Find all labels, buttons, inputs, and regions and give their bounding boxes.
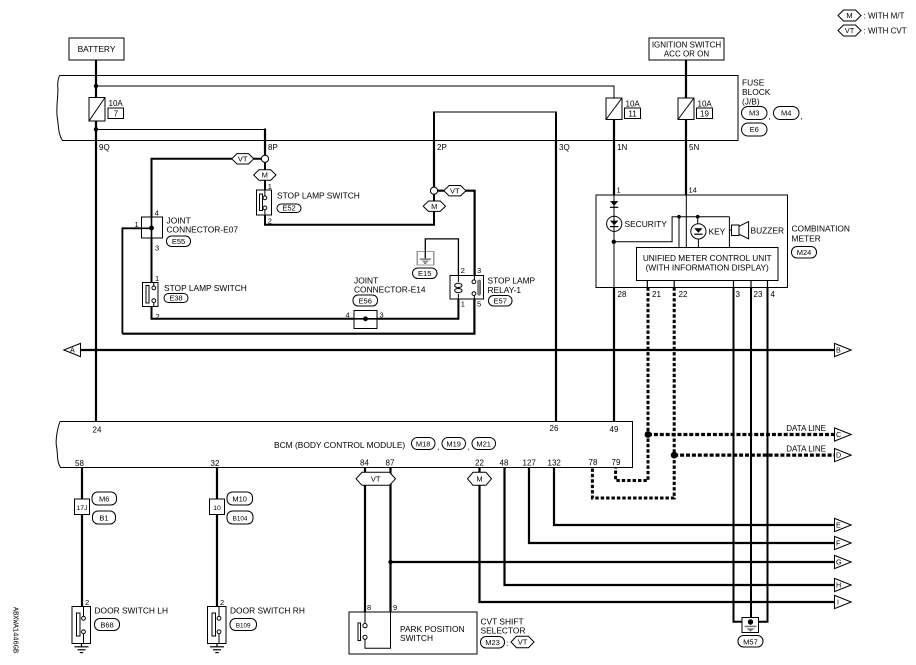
svg-text:B: B xyxy=(836,346,841,355)
svg-text:28: 28 xyxy=(618,290,627,299)
svg-text:87: 87 xyxy=(386,459,395,468)
svg-text:VT: VT xyxy=(238,154,248,163)
wire 2P branch right to relay pin 3 xyxy=(438,191,475,276)
wire meter pin 28 to BCM pin 49 xyxy=(613,287,615,421)
svg-text:84: 84 xyxy=(360,459,369,468)
svg-text:VT: VT xyxy=(371,475,381,484)
wire JC E14 pin 3 to relay pin 1 xyxy=(377,299,458,319)
svg-text:M: M xyxy=(431,202,437,211)
svg-text:DOOR SWITCH LH: DOOR SWITCH LH xyxy=(95,606,169,616)
svg-text:21: 21 xyxy=(652,290,661,299)
wire BCM 22 to line I xyxy=(480,467,835,602)
svg-text:DATA LINE: DATA LINE xyxy=(786,424,826,433)
wire BCM 48 to line H xyxy=(505,467,835,585)
svg-text:IGNITION SWITCH: IGNITION SWITCH xyxy=(652,41,722,50)
combination meter label M24 xyxy=(792,224,850,259)
wire BCM 132 to line E xyxy=(554,467,835,525)
bus from battery junction to fuse 11 xyxy=(96,86,614,98)
joint connector E07 xyxy=(135,209,239,253)
svg-text:BATTERY: BATTERY xyxy=(78,44,116,54)
wire 8P branch left to JC E07 pin 4 xyxy=(152,159,262,217)
svg-text:,: , xyxy=(437,442,439,452)
svg-text:E56: E56 xyxy=(359,297,372,306)
BCM label xyxy=(274,438,496,452)
ground M57 xyxy=(738,618,763,648)
wire 8P drop to branch circle xyxy=(264,141,266,156)
stop lamp switch E52 xyxy=(257,190,360,215)
connector 10 xyxy=(210,492,254,524)
svg-text:SWITCH: SWITCH xyxy=(400,633,433,643)
svg-text:10A: 10A xyxy=(698,100,713,109)
svg-text:2: 2 xyxy=(85,598,89,607)
junction dot below security xyxy=(612,240,616,244)
svg-text:SECURITY: SECURITY xyxy=(625,219,668,229)
wire E52 pin 2 to 2P branch xyxy=(265,194,434,224)
svg-text:,: , xyxy=(468,442,470,452)
svg-text:FUSE: FUSE xyxy=(742,78,765,88)
svg-text:22: 22 xyxy=(679,290,688,299)
U bus 2P-3Q xyxy=(433,111,557,113)
stop lamp switch E38 xyxy=(143,282,247,306)
svg-text:24: 24 xyxy=(93,426,102,435)
svg-text:79: 79 xyxy=(612,458,621,467)
junction dot below fuse 7 xyxy=(94,127,98,131)
svg-text:4: 4 xyxy=(771,290,776,299)
svg-text:3: 3 xyxy=(155,244,159,253)
svg-text:17J: 17J xyxy=(77,505,88,512)
svg-text:49: 49 xyxy=(610,425,619,434)
connector M3 xyxy=(742,107,771,122)
svg-text:132: 132 xyxy=(548,459,562,468)
wire to KEY LED xyxy=(697,217,699,224)
svg-text:M18: M18 xyxy=(416,440,431,449)
svg-text:SELECTOR: SELECTOR xyxy=(481,626,526,636)
wire E15 to relay pin 2 xyxy=(425,239,458,276)
wire relay pin 5 bottom loop xyxy=(122,299,474,334)
ground below door switch RH xyxy=(210,644,224,653)
connector M4 xyxy=(774,107,803,122)
M hexagon on wire 22 xyxy=(468,472,492,485)
BCM (body control module) box with torn left edge xyxy=(56,422,632,468)
svg-text:10: 10 xyxy=(213,505,221,512)
svg-text:M10: M10 xyxy=(232,495,247,504)
svg-text:7: 7 xyxy=(114,110,119,119)
svg-text:M24: M24 xyxy=(797,248,812,257)
svg-text:A: A xyxy=(70,346,75,355)
svg-text:E6: E6 xyxy=(750,125,759,134)
meter pin labels 28 21 22 3 23 4 xyxy=(618,290,776,299)
svg-text:F: F xyxy=(836,539,841,548)
svg-text:BCM (BODY CONTROL MODULE): BCM (BODY CONTROL MODULE) xyxy=(274,440,405,450)
door switch RH B109 xyxy=(208,606,305,644)
VT hexagon on 8P branch xyxy=(232,154,254,164)
svg-text:E52: E52 xyxy=(282,204,295,213)
wire BCM 32 to door switch RH xyxy=(216,467,218,607)
svg-text:DOOR SWITCH RH: DOOR SWITCH RH xyxy=(230,606,305,616)
buzzer xyxy=(729,222,784,239)
svg-text:VT: VT xyxy=(450,186,460,195)
fuse 7 (10A) xyxy=(89,98,124,122)
wire 5N inside meter to UMCU xyxy=(685,195,687,248)
wire fuse7 to 9Q xyxy=(95,121,97,141)
BCM bottom pin labels xyxy=(75,458,621,468)
legend VT hexagon : WITH CVT xyxy=(838,25,907,36)
park position switch box xyxy=(349,612,477,654)
svg-text:VT: VT xyxy=(845,26,855,35)
svg-text:2: 2 xyxy=(220,598,224,607)
svg-text:,: , xyxy=(769,111,771,121)
svg-text:ABXWA1446GB: ABXWA1446GB xyxy=(11,607,19,653)
svg-text::: : xyxy=(506,638,508,648)
connector arrow B xyxy=(835,343,852,356)
svg-text:4: 4 xyxy=(346,311,350,320)
wire BCM 58 to door switch LH xyxy=(81,467,83,607)
svg-text:1N: 1N xyxy=(617,143,627,152)
svg-text:M: M xyxy=(846,11,852,20)
svg-text:B109: B109 xyxy=(236,623,251,630)
ground below door switch LH xyxy=(75,644,89,653)
diode D1 xyxy=(610,201,618,207)
DATA LINE D dashed xyxy=(674,454,834,457)
svg-text:9: 9 xyxy=(393,603,397,612)
junction dot at battery bus xyxy=(94,84,98,88)
svg-text:M: M xyxy=(476,475,482,484)
svg-text:M3: M3 xyxy=(749,109,759,118)
svg-text:14: 14 xyxy=(689,186,697,195)
BCM top pin labels 24 26 49 xyxy=(93,424,619,435)
svg-text:BLOCK: BLOCK xyxy=(742,87,771,97)
stop lamp relay-1 E57 xyxy=(450,266,536,309)
wire 3Q to BCM pin 26 xyxy=(555,141,557,422)
wire meter pin 23 to ground M57 xyxy=(750,287,752,620)
A/B horizontal line xyxy=(81,349,835,351)
svg-text:CONNECTOR-E07: CONNECTOR-E07 xyxy=(167,225,239,235)
svg-text:3: 3 xyxy=(736,290,741,299)
unified meter control unit xyxy=(637,248,779,281)
svg-text:B104: B104 xyxy=(233,516,248,523)
svg-text:8P: 8P xyxy=(268,143,278,152)
DATA LINE C dashed xyxy=(648,433,835,436)
svg-text:32: 32 xyxy=(211,459,220,468)
wire meter pin 4 to ground M57 xyxy=(759,287,768,622)
svg-text:4: 4 xyxy=(155,209,159,218)
CVT shift selector label M23 xyxy=(481,617,535,649)
connector arrow G xyxy=(835,555,852,568)
wire JC E07 pin 3 to E38 pin 1 xyxy=(151,238,153,282)
svg-text:23: 23 xyxy=(754,290,763,299)
svg-text:CONNECTOR-E14: CONNECTOR-E14 xyxy=(354,285,426,295)
buzzer wire xyxy=(728,217,730,248)
VT hexagon on 2P branch xyxy=(444,186,466,196)
svg-text:E: E xyxy=(836,521,841,530)
wire JC E07 pin 1 loop xyxy=(122,228,141,333)
connector arrow I xyxy=(835,595,852,608)
SECURITY indicator LED xyxy=(607,216,668,231)
wire BCM 87 to park position switch pin 9 xyxy=(389,467,391,612)
wire circle to E52 pin 1 xyxy=(264,162,266,190)
svg-text:8: 8 xyxy=(367,603,371,612)
fuse 11 (10A) xyxy=(606,98,641,120)
connector arrow D xyxy=(835,449,852,462)
svg-text:E38: E38 xyxy=(169,294,182,303)
svg-text:M21: M21 xyxy=(476,440,491,449)
svg-text:M19: M19 xyxy=(446,440,461,449)
svg-text:26: 26 xyxy=(550,424,559,433)
connector arrow E xyxy=(835,518,852,531)
bus to 8P xyxy=(96,129,265,140)
svg-text:E55: E55 xyxy=(172,237,185,246)
svg-text:(WITH INFORMATION DISPLAY): (WITH INFORMATION DISPLAY) xyxy=(646,263,769,273)
wire E38 pin 2 to JC E14 pin 4 xyxy=(152,307,355,319)
svg-text:1: 1 xyxy=(461,300,465,309)
svg-text:: WITH M/T: : WITH M/T xyxy=(864,12,905,21)
svg-text:2P: 2P xyxy=(437,143,447,152)
svg-text:10A: 10A xyxy=(109,99,124,108)
fuse block (J/B) outline with torn left edge xyxy=(57,76,738,141)
connector 17J xyxy=(75,492,117,524)
M hexagon above E52 xyxy=(254,170,276,180)
svg-text:127: 127 xyxy=(523,459,537,468)
svg-text:58: 58 xyxy=(75,459,84,468)
connector E6 xyxy=(742,123,768,136)
svg-text:G: G xyxy=(836,558,842,567)
wire ignition to fuse 19 xyxy=(685,60,687,98)
KEY indicator LED xyxy=(691,224,726,239)
svg-text:9Q: 9Q xyxy=(99,143,110,152)
door switch LH B68 xyxy=(72,606,168,644)
svg-text:BUZZER: BUZZER xyxy=(751,226,785,236)
line G from wire 87 xyxy=(391,561,835,563)
wire 2P down to branch circle xyxy=(433,141,435,188)
svg-text:H: H xyxy=(836,581,841,590)
svg-text:11: 11 xyxy=(628,110,637,119)
svg-text:78: 78 xyxy=(589,458,598,467)
fuse 19 (10A) xyxy=(678,98,713,120)
wire 8P drop xyxy=(264,129,266,142)
svg-text:5N: 5N xyxy=(689,143,699,152)
wire BCM 84 to park position switch pin 8 xyxy=(364,467,366,612)
svg-text:,: , xyxy=(801,111,803,121)
svg-text:DATA LINE: DATA LINE xyxy=(786,445,826,454)
connector arrow H xyxy=(835,578,852,591)
ignition switch xyxy=(649,38,724,60)
svg-text:M6: M6 xyxy=(99,495,109,504)
svg-text:METER: METER xyxy=(792,234,821,244)
svg-text:22: 22 xyxy=(475,459,484,468)
svg-text:(J/B): (J/B) xyxy=(742,97,760,107)
wire 1N fuse 11 to meter pin 1 xyxy=(613,120,615,196)
svg-text:UNIFIED METER CONTROL UNIT: UNIFIED METER CONTROL UNIT xyxy=(643,253,772,263)
svg-text:STOP LAMP SWITCH: STOP LAMP SWITCH xyxy=(164,283,247,293)
svg-text:ACC OR ON: ACC OR ON xyxy=(664,50,710,59)
junction dot to KEY xyxy=(696,215,700,219)
security lamp wire inside meter xyxy=(613,195,615,287)
UMCU pin stubs xyxy=(647,281,767,288)
svg-text:5: 5 xyxy=(477,300,481,309)
wire to UMCU xyxy=(678,217,680,248)
junction dot wire 87 to G line xyxy=(388,560,392,564)
branch circle 8P xyxy=(261,155,268,162)
svg-text:I: I xyxy=(837,598,839,607)
svg-text:M4: M4 xyxy=(781,109,791,118)
ground connector E15 xyxy=(413,251,438,279)
svg-text:48: 48 xyxy=(500,459,509,468)
M hexagon below 2P circle xyxy=(423,201,445,211)
svg-text:STOP LAMP SWITCH: STOP LAMP SWITCH xyxy=(277,191,360,201)
wire BCM 127 to line F xyxy=(529,467,835,543)
svg-text:RELAY-1: RELAY-1 xyxy=(488,285,522,295)
battery B1 xyxy=(69,38,124,60)
VT hexagon on wires 84/87 xyxy=(356,472,396,485)
branch circle 2P xyxy=(430,187,437,194)
svg-text:M23: M23 xyxy=(485,638,500,647)
connector arrow A xyxy=(64,343,81,356)
wire meter pin 3 to ground M57 xyxy=(734,287,743,622)
svg-text:3: 3 xyxy=(477,266,481,275)
svg-text:1: 1 xyxy=(155,274,159,283)
legend M hexagon : WITH M/T xyxy=(838,10,904,21)
wire KEY to UMCU xyxy=(697,239,699,248)
connector arrow C xyxy=(835,428,852,441)
branch security to key/buzzer bus xyxy=(614,217,730,242)
svg-text:19: 19 xyxy=(700,110,709,119)
dashed wire meter pin 22 to BCM pin 78 xyxy=(592,287,674,498)
svg-text:2: 2 xyxy=(461,266,465,275)
svg-text:D: D xyxy=(836,451,841,460)
junction dot to UMCU xyxy=(677,215,681,219)
svg-text:B68: B68 xyxy=(100,621,113,630)
svg-text:3Q: 3Q xyxy=(559,143,570,152)
wire 9Q to BCM pin 24 xyxy=(95,141,97,422)
svg-text:: WITH CVT: : WITH CVT xyxy=(864,27,907,36)
wire labels 9Q 8P 2P 3Q 1N 5N xyxy=(99,143,699,152)
fuse block label xyxy=(742,78,771,107)
joint connector E14 xyxy=(346,276,426,329)
connector arrow F xyxy=(835,536,852,549)
svg-text:E15: E15 xyxy=(418,269,431,278)
dashed wire meter pin 21 to BCM pin 79 xyxy=(616,287,648,480)
svg-text:COMBINATION: COMBINATION xyxy=(792,224,850,234)
svg-text:10A: 10A xyxy=(626,100,641,109)
svg-text:1: 1 xyxy=(617,186,621,195)
svg-text:STOP LAMP: STOP LAMP xyxy=(488,276,536,286)
svg-text:C: C xyxy=(836,430,841,439)
wire 5N fuse 19 to meter pin 14 xyxy=(685,120,687,196)
junction dot data line C xyxy=(645,431,652,438)
svg-text:M57: M57 xyxy=(743,637,758,646)
wire battery to fuse 7 xyxy=(95,60,97,98)
svg-text:E57: E57 xyxy=(494,297,507,306)
svg-text:M: M xyxy=(262,171,268,180)
svg-text:B1: B1 xyxy=(99,514,108,523)
svg-text:VT: VT xyxy=(518,638,528,647)
combination meter box M24 xyxy=(596,195,788,287)
junction dot data line D xyxy=(671,452,678,459)
svg-text:KEY: KEY xyxy=(709,227,726,237)
